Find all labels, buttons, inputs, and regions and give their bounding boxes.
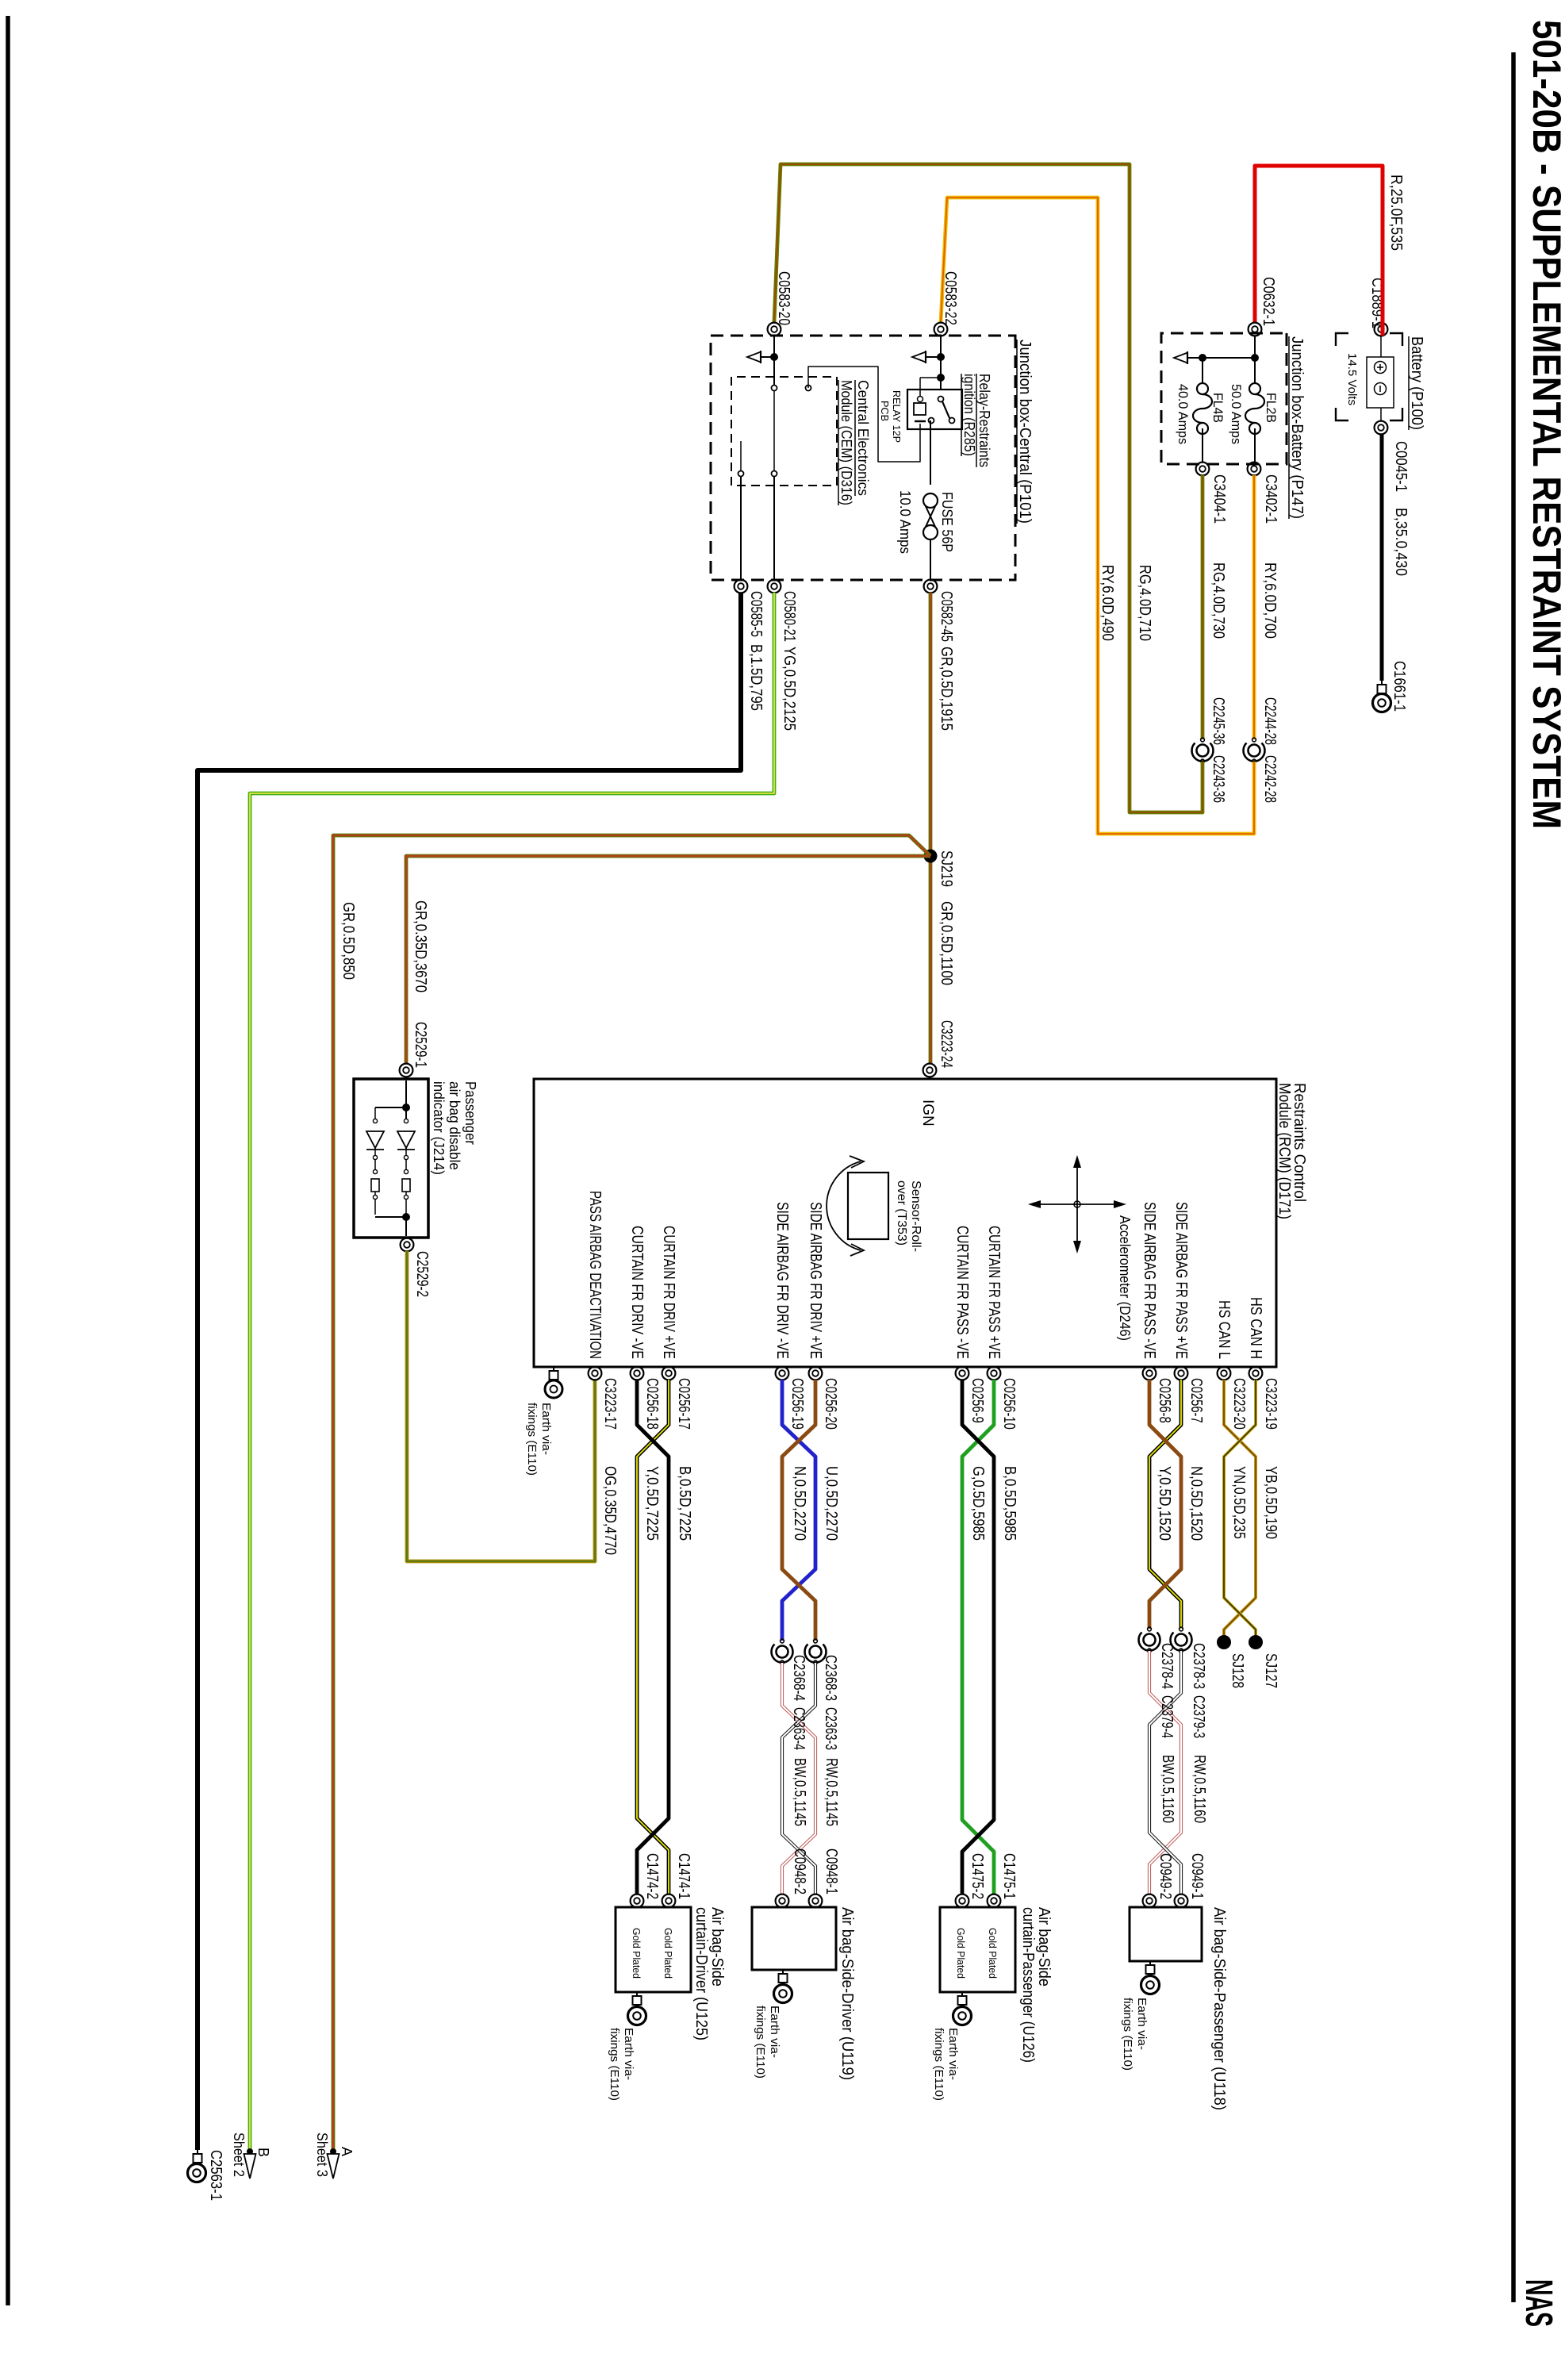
svg-text:C2363-3: C2363-3 [822,1707,839,1750]
svg-text:Air bag-Side-Passenger (U118): Air bag-Side-Passenger (U118) [1210,1907,1228,2110]
svg-text:C0632-1: C0632-1 [1260,277,1277,326]
svg-text:SJ127: SJ127 [1262,1653,1279,1688]
svg-text:CURTAIN FR DRIV +VE: CURTAIN FR DRIV +VE [660,1226,677,1359]
svg-text:fixings (E110): fixings (E110) [754,2006,767,2079]
svg-text:fixings (E110): fixings (E110) [1121,1998,1134,2071]
svg-text:C1474-1: C1474-1 [675,1853,692,1899]
svg-text:RW,0.5,1145: RW,0.5,1145 [823,1758,840,1826]
svg-text:C0256-9: C0256-9 [969,1378,986,1423]
svg-text:Module (RCM) (D171): Module (RCM) (D171) [1275,1083,1293,1219]
svg-text:C2244-28: C2244-28 [1261,697,1279,745]
svg-text:C0583-22: C0583-22 [942,271,959,325]
svg-text:Gold Plated: Gold Plated [662,1928,674,1979]
svg-text:BW,0.5,1145: BW,0.5,1145 [791,1758,808,1826]
svg-text:Module (CEM) (D316): Module (CEM) (D316) [838,380,854,505]
svg-text:Earth via-: Earth via- [946,2028,960,2080]
svg-text:C0583-20: C0583-20 [775,271,792,325]
svg-text:Sensor-Roll-: Sensor-Roll- [909,1180,923,1252]
svg-text:RELAY 12P: RELAY 12P [891,390,903,443]
svg-text:Gold Plated: Gold Plated [987,1928,999,1979]
svg-text:air bag disable: air bag disable [447,1081,462,1170]
svg-text:Y,0.5D,1520: Y,0.5D,1520 [1156,1466,1173,1541]
svg-text:Gold Plated: Gold Plated [955,1928,967,1979]
svg-text:Air bag-Side-Driver (U119): Air bag-Side-Driver (U119) [838,1907,856,2080]
svg-text:FL4B: FL4B [1210,393,1226,423]
svg-text:Junction box-Central (P101): Junction box-Central (P101) [1016,340,1034,524]
svg-text:FL2B: FL2B [1264,393,1279,423]
svg-text:over (T353): over (T353) [895,1180,908,1246]
svg-text:HS CAN L: HS CAN L [1215,1300,1233,1359]
svg-text:N,0.5D,1520: N,0.5D,1520 [1187,1466,1205,1541]
svg-text:C3404-1: C3404-1 [1210,474,1228,524]
svg-text:C0256-10: C0256-10 [1000,1378,1018,1430]
svg-text:Earth via-: Earth via- [539,1403,553,1455]
svg-text:C1474-2: C1474-2 [643,1853,661,1899]
svg-text:C2379-3: C2379-3 [1190,1695,1207,1738]
svg-text:Air bag-Side: Air bag-Side [1035,1907,1053,1987]
svg-text:C0256-7: C0256-7 [1187,1378,1205,1423]
svg-text:U,0.5D,2270: U,0.5D,2270 [823,1466,840,1541]
svg-text:YB,0.5D,190: YB,0.5D,190 [1262,1466,1279,1539]
svg-text:Air bag-Side: Air bag-Side [708,1907,726,1987]
svg-text:C2245-36: C2245-36 [1210,697,1227,745]
svg-text:PCB: PCB [879,401,891,421]
svg-text:SIDE AIRBAG FR PASS -VE: SIDE AIRBAG FR PASS -VE [1141,1202,1158,1359]
svg-text:OG,0.35D,4770: OG,0.35D,4770 [601,1466,619,1555]
svg-text:SIDE AIRBAG FR PASS +VE: SIDE AIRBAG FR PASS +VE [1172,1202,1190,1359]
svg-text:C3223-17: C3223-17 [601,1378,619,1430]
svg-text:CURTAIN FR DRIV -VE: CURTAIN FR DRIV -VE [628,1226,646,1359]
svg-text:Junction box-Battery (P147): Junction box-Battery (P147) [1288,336,1306,519]
svg-text:C0256-20: C0256-20 [822,1378,839,1430]
svg-text:GR,0.5D,1915: GR,0.5D,1915 [938,647,955,731]
svg-text:C0585-5: C0585-5 [747,591,765,637]
svg-text:Earth via-: Earth via- [768,2006,781,2058]
svg-text:fixings (E110): fixings (E110) [525,1403,539,1476]
svg-text:ignition (R285): ignition (R285) [961,374,977,456]
svg-text:Y,0.5D,7225: Y,0.5D,7225 [643,1466,661,1541]
svg-text:HS CAN H: HS CAN H [1247,1297,1264,1359]
svg-text:SIDE AIRBAG FR DRIV -VE: SIDE AIRBAG FR DRIV -VE [773,1202,791,1359]
svg-text:SIDE AIRBAG FR DRIV +VE: SIDE AIRBAG FR DRIV +VE [807,1202,824,1359]
svg-text:fixings (E110): fixings (E110) [608,2028,621,2101]
svg-text:curtain-Driver (U125): curtain-Driver (U125) [692,1907,710,2040]
svg-text:Relay-Restraints: Relay-Restraints [976,374,992,467]
svg-text:C2378-3: C2378-3 [1190,1643,1207,1689]
svg-text:50.0 Amps: 50.0 Amps [1229,384,1244,444]
svg-text:SJ128: SJ128 [1229,1653,1246,1688]
svg-text:C0256-8: C0256-8 [1156,1378,1173,1423]
svg-text:C0256-17: C0256-17 [675,1378,692,1430]
svg-text:NAS: NAS [1517,2279,1559,2327]
svg-text:CURTAIN FR PASS +VE: CURTAIN FR PASS +VE [985,1226,1003,1359]
svg-text:CURTAIN FR PASS -VE: CURTAIN FR PASS -VE [953,1226,971,1359]
svg-text:C0948-1: C0948-1 [823,1848,840,1894]
svg-text:Sheet 3: Sheet 3 [314,2132,330,2177]
svg-text:Central Electronics: Central Electronics [855,380,871,496]
svg-text:C0045-1: C0045-1 [1392,441,1410,492]
svg-text:C2363-4: C2363-4 [790,1707,807,1750]
svg-text:C1475-1: C1475-1 [1000,1853,1018,1899]
svg-text:Gold Plated: Gold Plated [631,1928,642,1979]
svg-text:C0256-18: C0256-18 [643,1378,661,1430]
svg-text:C2529-2: C2529-2 [413,1251,431,1297]
svg-text:G,0.5D,5985: G,0.5D,5985 [969,1466,987,1541]
svg-text:C0949-1: C0949-1 [1188,1853,1206,1899]
svg-text:A: A [339,2147,355,2156]
svg-text:IGN: IGN [919,1100,936,1127]
svg-text:Earth via-: Earth via- [622,2028,635,2080]
svg-text:YN,0.5D,235: YN,0.5D,235 [1230,1466,1248,1539]
svg-text:GR,0.35D,3670: GR,0.35D,3670 [412,900,429,992]
svg-text:Sheet 2: Sheet 2 [231,2132,247,2177]
svg-text:fixings (E110): fixings (E110) [932,2028,946,2101]
svg-text:RY,6.0D,700: RY,6.0D,700 [1261,562,1279,639]
svg-text:FUSE 56P: FUSE 56P [939,492,955,552]
svg-text:RG,4.0D,710: RG,4.0D,710 [1136,565,1153,641]
svg-text:10.0 Amps: 10.0 Amps [897,490,913,554]
svg-text:C3223-24: C3223-24 [938,1020,955,1068]
svg-text:C3223-20: C3223-20 [1230,1378,1248,1430]
svg-text:C3402-1: C3402-1 [1262,474,1279,524]
svg-text:B,0.5D,7225: B,0.5D,7225 [676,1466,693,1541]
svg-text:GR,0.5D,1100: GR,0.5D,1100 [938,901,955,985]
svg-text:RY,6.0D,490: RY,6.0D,490 [1099,565,1116,641]
svg-text:C2368-3: C2368-3 [822,1655,839,1701]
svg-text:Earth via-: Earth via- [1135,1998,1149,2050]
svg-text:C2242-28: C2242-28 [1261,755,1279,803]
svg-text:Accelerometer (D246): Accelerometer (D246) [1117,1215,1133,1341]
svg-text:501-20B - SUPPLEMENTAL RESTRAI: 501-20B - SUPPLEMENTAL RESTRAINT SYSTEM [1525,20,1565,829]
svg-text:C1475-2: C1475-2 [969,1853,986,1899]
svg-text:40.0 Amps: 40.0 Amps [1176,384,1191,444]
svg-text:Battery (P100): Battery (P100) [1408,336,1425,430]
svg-text:N,0.5D,2270: N,0.5D,2270 [791,1466,808,1541]
svg-text:14.5 Volts: 14.5 Volts [1345,353,1359,405]
svg-text:PASS AIRBAG DEACTIVATION: PASS AIRBAG DEACTIVATION [586,1191,604,1359]
svg-text:SJ219: SJ219 [938,850,955,887]
svg-text:C2379-4: C2379-4 [1158,1695,1176,1738]
svg-text:B,1.5D,795: B,1.5D,795 [747,644,765,711]
svg-text:Passenger: Passenger [462,1081,478,1145]
svg-text:B,0.5D,5985: B,0.5D,5985 [1001,1466,1018,1541]
svg-text:C3223-19: C3223-19 [1262,1378,1279,1430]
svg-text:C0256-19: C0256-19 [788,1378,806,1430]
svg-text:C1661-1: C1661-1 [1390,661,1408,712]
svg-text:C2368-4: C2368-4 [790,1655,807,1701]
svg-text:indicator (J214): indicator (J214) [431,1081,447,1175]
svg-text:C2563-1: C2563-1 [207,2150,224,2201]
svg-text:YG,0.5D,2125: YG,0.5D,2125 [781,647,798,731]
svg-text:RG,4.0D,730: RG,4.0D,730 [1210,562,1227,639]
svg-text:C2378-4: C2378-4 [1158,1643,1176,1689]
svg-text:C0582-45: C0582-45 [938,591,955,642]
svg-text:RW,0.5,1160: RW,0.5,1160 [1191,1755,1208,1823]
svg-text:C0580-21: C0580-21 [781,591,798,642]
svg-text:GR,0.5D,850: GR,0.5D,850 [339,902,357,980]
svg-text:B,35.0,430: B,35.0,430 [1392,508,1410,576]
svg-text:B: B [255,2148,271,2157]
svg-text:R,25.0F,535: R,25.0F,535 [1387,175,1405,251]
svg-text:C0948-2: C0948-2 [791,1848,808,1894]
svg-text:C2243-36: C2243-36 [1210,755,1227,803]
svg-text:C2529-1: C2529-1 [412,1022,429,1068]
svg-text:BW,0.5,1160: BW,0.5,1160 [1159,1755,1176,1823]
svg-text:C0949-2: C0949-2 [1156,1853,1174,1899]
svg-text:curtain-Passenger (U126): curtain-Passenger (U126) [1019,1907,1037,2063]
